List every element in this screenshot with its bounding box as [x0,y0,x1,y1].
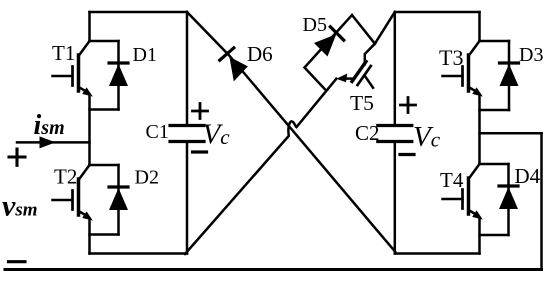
wire: right section top rail [395,11,480,14]
svg-text:D2: D2 [135,167,159,189]
capacitor C1 upper lead [186,12,189,124]
wire: D1 loop bottom [90,108,119,111]
diode D6 [220,48,234,60]
transistor T3 [443,41,483,97]
wire: D2 loop top [90,164,119,167]
svg-text:T2: T2 [54,165,77,189]
minus sign C1 [193,150,207,153]
wire: D4 loop vertical [507,164,510,235]
wire: T5 collector to top corner [375,12,395,44]
svg-text:D1: D1 [133,44,157,66]
wire: D4 loop bottom [480,234,509,237]
wire: D4 loop top [480,163,509,166]
capacitor C2 lower lead [394,143,397,254]
wire: left vertical lower segment [88,219,91,254]
wire: D2 loop vertical [117,165,120,235]
svg-text:T4: T4 [440,168,464,192]
svg-text:D4: D4 [515,164,541,188]
svg-text:C1: C1 [146,121,169,143]
wire: D3 loop vertical [508,41,511,110]
plus sign C1 [193,104,208,119]
wire: left vertical upper segment [88,12,91,41]
diode D4 [499,186,518,209]
transistor T2 [53,165,93,221]
wire: left section top rail [90,11,188,14]
diode D1 [109,63,128,86]
svg-text:D3: D3 [519,44,543,66]
plus sign C2 [401,98,416,113]
wire: right mid-point to right edge [480,132,542,135]
wire: right vertical upper segment [478,12,481,41]
wire: left section bottom rail [90,252,188,255]
arrow ism [40,136,56,148]
svg-text:D5: D5 [303,14,327,36]
wire: right vertical middle segment [478,95,481,165]
diode D5 [314,27,344,57]
wire: input ism [17,141,90,144]
diode D3 [500,63,519,86]
capacitor C2 upper lead [394,12,397,124]
capacitor C2 plates [378,126,412,142]
minus sign C2 [400,153,414,156]
wire: diagonal T5 branch lower with hop over crossing [185,79,336,254]
transistor T5 [336,44,375,88]
wire: right vertical lower segment [478,218,481,254]
svg-text:C2: C2 [355,121,380,145]
plus sign vsm [9,149,25,165]
wire: D5 bypass loop [305,15,375,90]
transistor T1 [53,41,93,97]
wire: D2 loop bottom [90,233,119,236]
wire: D1 loop vertical [117,41,120,110]
minus sign vsm [9,260,26,263]
svg-text:T3: T3 [439,45,463,70]
wire: diagonal D6 branch [187,12,395,252]
wire: bottom long rail [5,268,542,271]
wire: right section bottom rail [395,252,480,255]
wire: D3 loop top [480,40,510,43]
wire: D1 loop top [90,40,119,43]
svg-text:T1: T1 [52,41,75,65]
wire: left vertical middle segment [88,95,91,166]
transistor T4 [443,164,483,220]
wire: D3 loop bottom [480,109,510,112]
capacitor C1 plates [170,126,204,142]
capacitor C1 lower lead [186,143,189,254]
wire: right edge vertical [540,133,543,269]
svg-text:T5: T5 [350,91,374,115]
svg-text:D6: D6 [247,42,273,66]
diode D2 [109,187,128,210]
